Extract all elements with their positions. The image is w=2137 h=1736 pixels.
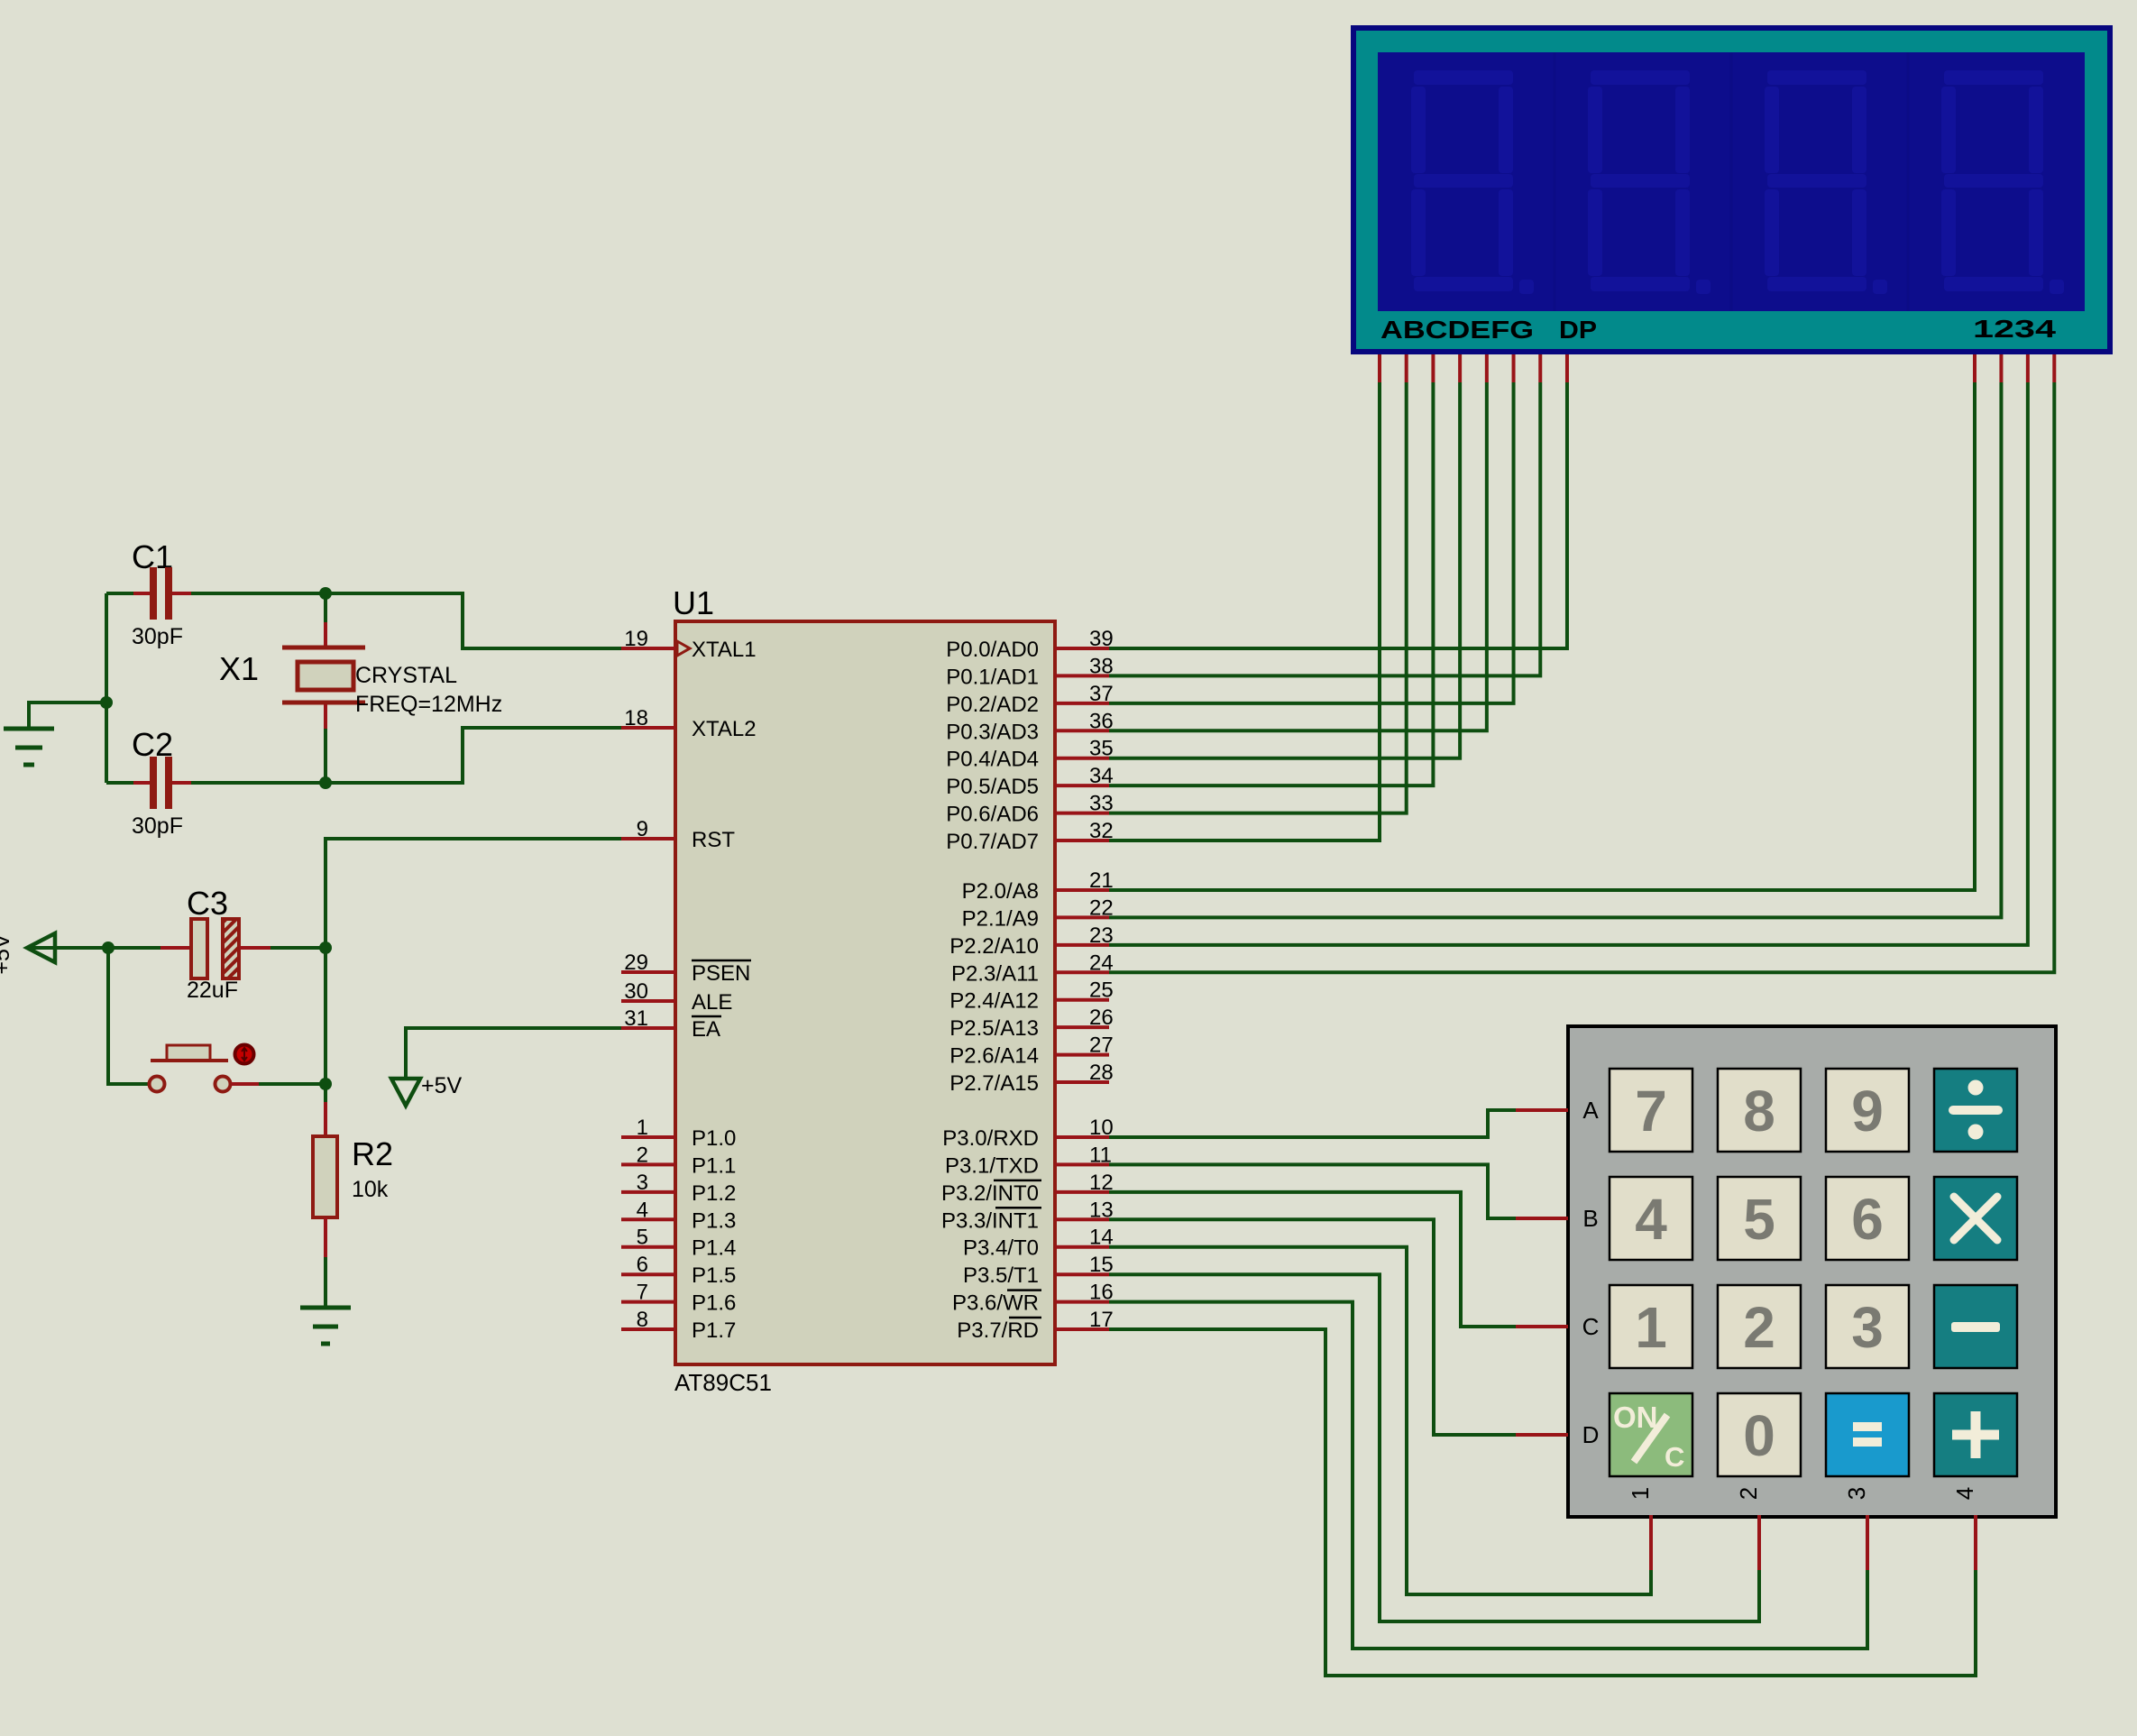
svg-text:P1.3: P1.3 [692,1208,736,1233]
wire RST net [326,839,621,1084]
svg-text:C3: C3 [187,885,228,922]
svg-text:P0.7/AD7: P0.7/AD7 [946,830,1039,854]
wire P0.2 net [1109,382,1514,703]
svg-text:5: 5 [637,1226,648,1250]
keypad row pin C [1516,1325,1568,1328]
pin 5 P1.4 [621,1245,675,1249]
pin 30 ALE [621,999,675,1003]
svg-text:P3.3/INT1: P3.3/INT1 [941,1208,1039,1233]
key div [1934,1069,2017,1152]
node: ground tap [100,696,113,709]
svg-text:P0.0/AD0: P0.0/AD0 [946,638,1039,662]
svg-text:P1.5: P1.5 [692,1263,736,1288]
op: microcontroller U1 AT89C51 body [675,621,1055,1364]
wire P0.4 net [1109,382,1460,758]
svg-text:8: 8 [637,1308,648,1332]
+5V supply (EA) [406,1028,621,1079]
key add [1934,1393,2017,1476]
wire C1 node to XTAL1 [326,593,621,648]
pin 1 P1.0 [621,1135,675,1139]
wire P2.0 net [1109,382,1975,890]
ground symbol (crystal) [4,727,54,731]
pin 26 P2.5/A13 [1055,1025,1109,1029]
svg-text:31: 31 [624,1006,648,1031]
ground symbol (R2) [300,1306,351,1310]
svg-text:XTAL1: XTAL1 [692,638,757,662]
wire C2 node to XTAL2 [326,728,621,783]
svg-text:30pF: 30pF [132,813,183,839]
svg-text:+5V: +5V [0,933,14,975]
key mul [1934,1177,2017,1260]
wire P0.1 net [1109,382,1540,675]
keypad row pin B [1516,1217,1568,1220]
svg-text:1: 1 [1627,1487,1654,1500]
XTAL1 input arrow [677,641,690,656]
pin 34 P0.5/AD5 [1055,784,1109,787]
svg-text:B: B [1582,1205,1598,1232]
pin 29 PSEN [621,970,675,974]
svg-text:2: 2 [637,1143,648,1167]
svg-text:7: 7 [637,1281,648,1305]
node: button/R2 junction [319,1078,332,1090]
svg-text:P3.7/RD: P3.7/RD [957,1318,1039,1343]
svg-text:3: 3 [1843,1487,1870,1500]
svg-text:P3.2/INT0: P3.2/INT0 [941,1181,1039,1206]
svg-text:+5V: +5V [421,1073,463,1098]
keypad column pin 2 [1757,1515,1761,1570]
svg-text:FREQ=12MHz: FREQ=12MHz [355,692,502,717]
button interactive marker [235,1045,254,1064]
svg-text:8: 8 [1743,1079,1775,1144]
svg-text:X1: X1 [219,650,259,687]
svg-text:D: D [1582,1421,1600,1448]
pin 18 XTAL2 [621,726,675,730]
svg-text:P1.4: P1.4 [692,1236,736,1261]
pin 21 P2.0/A8 [1055,888,1109,892]
svg-text:R2: R2 [352,1135,393,1172]
keypad column pin 1 [1649,1515,1653,1570]
key 7 [1610,1069,1692,1152]
display digit 1 segments [1411,70,1534,294]
pin 4 P1.3 [621,1217,675,1221]
svg-text:6: 6 [1851,1187,1884,1252]
svg-text:10k: 10k [352,1177,389,1202]
svg-text:XTAL2: XTAL2 [692,717,757,741]
keypad column pin 3 [1866,1515,1869,1570]
svg-text:P1.2: P1.2 [692,1181,736,1206]
svg-text:P0.1/AD1: P0.1/AD1 [946,665,1039,689]
display pin B [1405,354,1408,382]
node: C3 left junction [102,941,115,954]
pin 13 P3.3/INT1 [1055,1217,1109,1221]
svg-text:EA: EA [692,1017,720,1042]
svg-text:P2.6/A14: P2.6/A14 [949,1044,1039,1069]
svg-text:2: 2 [1735,1487,1762,1500]
pin 38 P0.1/AD1 [1055,674,1109,677]
svg-text:1234: 1234 [1973,315,2057,343]
svg-text:26: 26 [1089,1006,1114,1030]
svg-text:P2.0/A8: P2.0/A8 [962,879,1039,904]
svg-text:P2.4/A12: P2.4/A12 [949,989,1039,1014]
svg-text:U1: U1 [673,584,714,621]
keypad row pin A [1516,1108,1568,1112]
wire P3.1 to keypad row B [1109,1164,1516,1218]
pin 7 P1.6 [621,1300,675,1304]
pin 14 P3.4/T0 [1055,1245,1109,1249]
pin 27 P2.6/A14 [1055,1053,1109,1057]
svg-text:30: 30 [624,979,648,1004]
wire P3.0 to keypad row A [1109,1110,1516,1137]
svg-text:RST: RST [692,828,735,852]
node: C1/XTAL1 junction [319,587,332,600]
svg-text:P3.6/WR: P3.6/WR [952,1291,1039,1316]
pin 8 P1.7 [621,1327,675,1331]
key ON/C [1610,1393,1692,1476]
svg-text:28: 28 [1089,1061,1114,1085]
key 2 [1718,1285,1801,1368]
pin 16 P3.6/WR [1055,1300,1109,1304]
display pin F [1512,354,1516,382]
key 9 [1826,1069,1909,1152]
push button reset [108,948,150,1084]
svg-text:1: 1 [1635,1295,1667,1360]
pin 31 EA [621,1026,675,1030]
display digit 4 segments [1941,70,2064,294]
svg-text:P3.1/TXD: P3.1/TXD [945,1153,1039,1178]
wire to ground [29,703,106,727]
display digit separator 1 [1554,52,1556,311]
display digit 3 segments [1765,70,1887,294]
pin 25 P2.4/A12 [1055,998,1109,1002]
wire P3.3 to keypad row D [1109,1219,1516,1435]
display digit separator 3 [1907,52,1910,311]
svg-text:25: 25 [1089,978,1114,1003]
pin 23 P2.2/A10 [1055,943,1109,947]
key 0 [1718,1393,1801,1476]
pin 19 XTAL1 [621,647,675,650]
svg-text:27: 27 [1089,1033,1114,1058]
display pin D [1458,354,1462,382]
key 4 [1610,1177,1692,1260]
keypad body [1568,1026,2056,1517]
wire P2.1 net [1109,382,2001,917]
svg-text:6: 6 [637,1253,648,1277]
svg-text:4: 4 [1635,1187,1667,1252]
wire P3.5 to keypad column 2 [1109,1274,1759,1621]
display pin A [1378,354,1381,382]
svg-text:22uF: 22uF [187,978,238,1003]
svg-text:A: A [1582,1097,1599,1124]
wire P3.6 to keypad column 3 [1109,1302,1867,1649]
svg-text:P2.1/A9: P2.1/A9 [962,906,1039,931]
pin 9 RST [621,837,675,840]
svg-text:P0.5/AD5: P0.5/AD5 [946,775,1039,799]
pin 39 P0.0/AD0 [1055,647,1109,650]
svg-text:9: 9 [637,817,648,841]
pin 17 P3.7/RD [1055,1327,1109,1331]
wire P3.2 to keypad row C [1109,1192,1516,1327]
pin 6 P1.5 [621,1272,675,1276]
pin 10 P3.0/RXD [1055,1135,1109,1139]
svg-text:4: 4 [1951,1487,1978,1500]
display digit separator 2 [1730,52,1733,311]
display pin E [1485,354,1489,382]
wire P0.3 net [1109,382,1487,730]
svg-text:11: 11 [1089,1143,1112,1167]
svg-text:ON: ON [1613,1401,1658,1434]
svg-text:P1.1: P1.1 [692,1153,736,1178]
svg-text:P0.2/AD2: P0.2/AD2 [946,693,1039,717]
svg-text:CRYSTAL: CRYSTAL [355,663,457,688]
svg-text:P2.7/A15: P2.7/A15 [949,1071,1039,1096]
svg-text:AT89C51: AT89C51 [674,1369,772,1396]
display digit 2 segments [1588,70,1711,294]
key sub [1934,1285,2017,1368]
pin 33 P0.6/AD6 [1055,812,1109,815]
svg-text:P0.3/AD3: P0.3/AD3 [946,720,1039,744]
pin 36 P0.3/AD3 [1055,729,1109,732]
svg-text:P3.0/RXD: P3.0/RXD [942,1126,1039,1151]
key 8 [1718,1069,1801,1152]
pin 15 P3.5/T1 [1055,1272,1109,1276]
+5V supply (left) [27,946,108,950]
svg-text:DP: DP [1559,316,1597,344]
svg-text:3: 3 [637,1171,648,1195]
wire P2.2 net [1109,382,2028,945]
svg-text:18: 18 [624,706,648,730]
keypad row pin D [1516,1433,1568,1437]
wire P0.6 net [1109,382,1407,813]
svg-text:7: 7 [1635,1079,1667,1144]
svg-text:5: 5 [1743,1187,1775,1252]
display pin C [1431,354,1435,382]
svg-text:4: 4 [637,1198,648,1222]
svg-text:1: 1 [637,1116,648,1140]
svg-text:C: C [1582,1313,1600,1340]
wire P2.3 net [1109,382,2054,972]
pin 37 P0.2/AD2 [1055,702,1109,705]
pin 3 P1.2 [621,1190,675,1194]
node: C2/XTAL2 junction [319,776,332,789]
display pin DP [1565,354,1569,382]
svg-text:2: 2 [1743,1295,1775,1360]
wire P0.7 net [1109,382,1380,840]
svg-text:0: 0 [1743,1403,1775,1468]
svg-text:P0.4/AD4: P0.4/AD4 [946,748,1039,772]
svg-text:P2.3/A11: P2.3/A11 [951,961,1039,986]
key 5 [1718,1177,1801,1260]
svg-text:P1.7: P1.7 [692,1318,736,1343]
pin 28 P2.7/A15 [1055,1080,1109,1084]
wire P0.5 net [1109,382,1433,785]
svg-text:P3.5/T1: P3.5/T1 [963,1263,1039,1288]
display pin 4 [2052,354,2056,382]
wire P3.4 to keypad column 1 [1109,1247,1651,1594]
svg-text:ALE: ALE [692,990,732,1015]
key 3 [1826,1285,1909,1368]
svg-text:P1.0: P1.0 [692,1126,736,1151]
wire P3.7 to keypad column 4 [1109,1329,1976,1676]
svg-text:30pF: 30pF [132,624,183,649]
display pin G [1538,354,1542,382]
pin 35 P0.4/AD4 [1055,757,1109,760]
pin 11 P3.1/TXD [1055,1162,1109,1166]
display pin 3 [2026,354,2030,382]
svg-text:P3.4/T0: P3.4/T0 [963,1236,1039,1261]
svg-text:P0.6/AD6: P0.6/AD6 [946,803,1039,827]
key 6 [1826,1177,1909,1260]
svg-text:P2.5/A13: P2.5/A13 [949,1016,1039,1041]
wire C1-C2 left bus [105,593,108,783]
pin 32 P0.7/AD7 [1055,839,1109,842]
pin 12 P3.2/INT0 [1055,1190,1109,1194]
7-segment display DS1 [1351,25,2113,354]
svg-text:29: 29 [624,951,648,975]
svg-text:19: 19 [624,627,648,651]
keypad column pin 4 [1974,1515,1977,1570]
svg-text:3: 3 [1851,1295,1884,1360]
pin 2 P1.1 [621,1162,675,1166]
node: C3 right junction [319,941,332,954]
display pin 2 [1999,354,2003,382]
svg-text:P1.6: P1.6 [692,1291,736,1316]
pin 22 P2.1/A9 [1055,915,1109,919]
pin 24 P2.3/A11 [1055,970,1109,974]
key equals [1826,1393,1909,1476]
svg-text:ABCDEFG: ABCDEFG [1380,316,1534,344]
svg-text:PSEN: PSEN [692,961,750,986]
svg-text:C: C [1665,1441,1684,1473]
display pin 1 [1973,354,1976,382]
svg-text:9: 9 [1851,1079,1884,1144]
key 1 [1610,1285,1692,1368]
wire P0.0 net [1109,382,1567,648]
svg-text:P2.2/A10: P2.2/A10 [949,934,1039,959]
